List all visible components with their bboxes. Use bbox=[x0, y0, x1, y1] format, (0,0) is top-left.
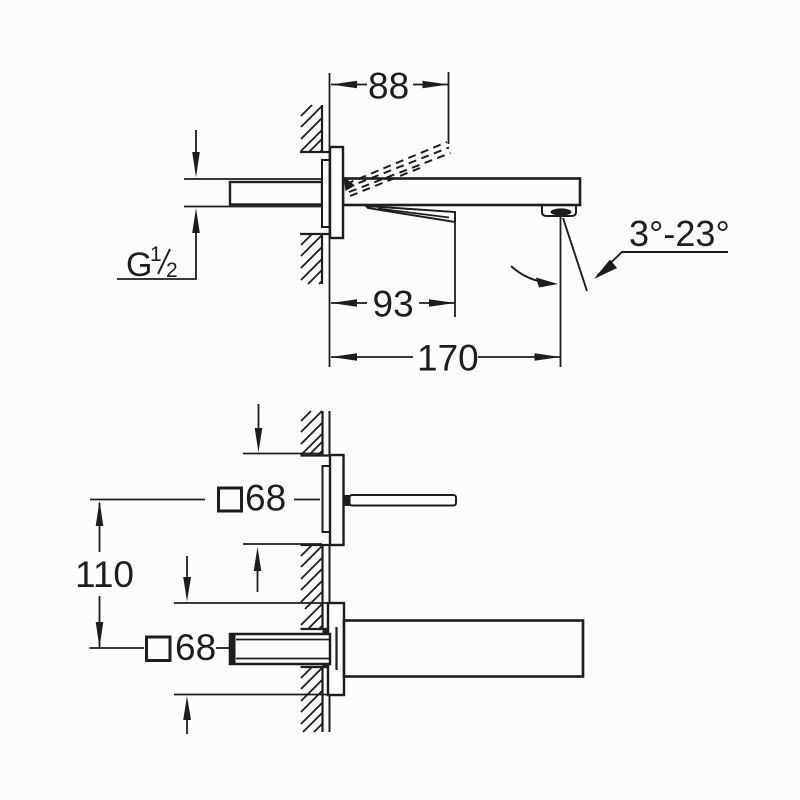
svg-text:2: 2 bbox=[166, 259, 178, 282]
wall face line lower (top drawing) bbox=[321, 234, 323, 284]
escutcheon plate (top drawing) bbox=[330, 147, 343, 238]
handle lever attach block bbox=[344, 495, 350, 506]
svg-text:110: 110 bbox=[75, 554, 134, 595]
wall hatch (bottom drawing) bbox=[301, 411, 322, 732]
wall back line (bottom drawing) bbox=[329, 411, 331, 732]
spout body (top drawing) bbox=[343, 179, 580, 206]
wall cavity caps (bottom drawing) bbox=[301, 456, 331, 668]
leader to mixer plate bbox=[294, 499, 320, 501]
back plate mixer bbox=[323, 466, 331, 532]
dimension 110 bbox=[99, 503, 101, 647]
extension line at wall plane x=330 bbox=[329, 73, 331, 367]
dimension 88 bbox=[331, 84, 448, 86]
wall hatch upper block (top drawing) bbox=[301, 105, 322, 152]
wall cavity cap top (top drawing) bbox=[300, 151, 330, 153]
svg-text:88: 88 bbox=[368, 66, 409, 107]
swivel arc with arrow bbox=[511, 266, 548, 283]
leader line 3-23 bbox=[597, 252, 728, 276]
arrow below mixer plate bbox=[257, 570, 259, 592]
leader to pipe bbox=[216, 647, 229, 649]
wall face line (bottom drawing) bbox=[321, 411, 323, 732]
extension line spout outlet (170) bbox=[560, 215, 562, 367]
supply pipe spout bbox=[230, 634, 330, 664]
escutcheon plate mixer bbox=[330, 455, 344, 545]
svg-text:68: 68 bbox=[175, 627, 216, 668]
handle lever bar bbox=[350, 495, 457, 506]
lever handle solid (lowered position) bbox=[366, 206, 455, 222]
svg-text:93: 93 bbox=[373, 284, 414, 325]
spout rear edge line bbox=[335, 627, 337, 670]
wall hatch lower block (top drawing) bbox=[301, 234, 322, 284]
lever pivot mark bbox=[344, 177, 356, 192]
svg-text:68: 68 bbox=[245, 478, 286, 519]
square-68 label spout bbox=[147, 637, 171, 661]
concealed supply pipe outline bbox=[184, 179, 322, 207]
spout body (bottom drawing) bbox=[344, 621, 583, 677]
wall cavity cap bottom (top drawing) bbox=[300, 233, 329, 235]
svg-text:1: 1 bbox=[150, 243, 162, 266]
G 1/2 arrow lower with leader bbox=[117, 231, 196, 279]
extension lines spout plate bbox=[174, 603, 340, 695]
water stream angle line bbox=[563, 218, 587, 291]
extension line lever tip (93) bbox=[454, 223, 456, 317]
wall penetration dark bar bbox=[323, 629, 328, 669]
extension lines mixer plate bbox=[243, 454, 322, 545]
arrow above mixer plate bbox=[258, 404, 260, 430]
svg-text:3°-23°: 3°-23° bbox=[629, 213, 730, 254]
escutcheon plate spout bbox=[328, 603, 344, 695]
svg-text:G: G bbox=[126, 246, 152, 284]
svg-text:170: 170 bbox=[417, 338, 479, 379]
supply nipple G1/2 bbox=[230, 182, 322, 205]
lever handle dashed (raised position) bbox=[346, 142, 451, 196]
dimension 170 bbox=[331, 356, 560, 358]
arrow above spout plate bbox=[186, 556, 188, 578]
arrow below spout plate bbox=[186, 719, 188, 734]
aerator / mousseur bbox=[542, 205, 576, 216]
dimension 93 bbox=[331, 302, 455, 304]
dimension 110 extension lines bbox=[90, 500, 206, 649]
back plate (top drawing) bbox=[322, 160, 330, 227]
G 1/2 arrow upper bbox=[195, 130, 197, 154]
extension line lever tip (88) bbox=[448, 72, 450, 144]
wall face line upper (top drawing) bbox=[321, 105, 323, 152]
square-68 label mixer bbox=[219, 488, 242, 511]
